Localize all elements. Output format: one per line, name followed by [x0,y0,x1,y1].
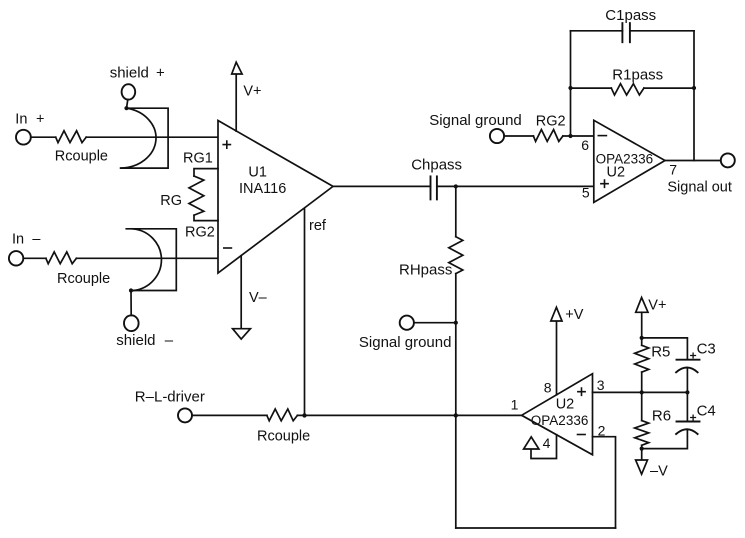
terminal Signal out [721,153,735,167]
capacitor C4 plate [677,421,700,423]
capacitor Chpass plate2 [436,176,438,199]
op-amp U2 top OPA2336 [594,120,665,202]
wire R-L rail left [192,414,267,416]
ref wire [304,208,306,415]
junction dot ref node [302,413,306,417]
wire Rcouple to U1 + input [86,136,218,138]
resistor R6 [635,421,649,446]
V+ arrow divider [636,298,648,313]
svg-text:Signal ground: Signal ground [359,334,452,351]
svg-text:–: – [165,332,174,349]
svg-text:R1pass: R1pass [612,67,663,84]
wire R6 to -V node [641,445,643,460]
capacitor C1pass plate1 [621,23,623,42]
wire highpass node vertical [455,186,457,236]
wire sgtop to RG2 [504,135,533,137]
svg-text:V+: V+ [243,84,261,100]
wire Chpass to U2 pin5 [437,185,594,187]
wire feedback left vertical [570,31,572,136]
junction dot -V node [640,447,644,451]
junction dot signal ground node [454,321,458,325]
svg-text:+: + [156,65,165,82]
wire feedback right vertical [693,31,695,161]
wire V+ to R5 [641,312,643,345]
junction dot Chpass node [454,184,458,188]
wire Rcouple to U1 - input [76,257,218,259]
svg-text:R6: R6 [652,408,671,425]
wire U1 output [333,185,431,187]
junction dot pin6 node [568,134,572,138]
junction dot output node [454,413,458,417]
op-amp U2 bottom OPA2336 [522,374,593,455]
svg-text:Signal out: Signal out [667,179,732,195]
svg-text:shield: shield [110,65,149,82]
svg-text:Rcouple: Rcouple [257,428,310,444]
pin3 wire [593,391,688,393]
op-amp U1 INA116 [218,121,333,274]
svg-text:V+: V+ [648,297,666,313]
pin2 wire and feedback right [593,437,616,528]
terminal In+ [16,130,31,145]
junction dot shield+ [124,106,128,110]
U2 top minus sign [598,135,606,137]
svg-text:U1: U1 [248,164,267,180]
wire shield+ lead [127,100,128,108]
svg-text:INA116: INA116 [239,181,286,197]
U1 plus input sign [223,141,230,148]
wire U2 output [665,160,721,162]
svg-text:R–L-driver: R–L-driver [135,389,205,406]
wire C3 branch [642,338,688,360]
svg-text:+: + [36,112,44,128]
capacitor C1pass plate2 [629,23,631,42]
wire C3 to pin3 node [686,368,688,392]
feedback bottom rail [456,527,616,529]
terminal shield- [124,315,139,331]
svg-text:RG2: RG2 [185,225,215,241]
RG1 stub wire [194,169,218,176]
wire top rail left [571,30,623,32]
svg-text:In: In [15,112,27,128]
shield guard upper arc [121,108,156,168]
svg-text:6: 6 [581,137,589,153]
svg-text:+V: +V [565,307,583,323]
wire signal ground mid [414,322,456,324]
-V arrow [636,460,648,474]
resistor R5 [635,345,649,372]
junction dot pin3 node [640,390,644,394]
svg-text:C3: C3 [697,341,716,358]
svg-text:3: 3 [597,377,605,393]
capacitor C4 curved plate [676,429,698,434]
terminal R-L-driver [178,408,192,422]
wire node down to feedback rail [455,415,457,528]
resistor RG2 (top) [533,130,563,142]
wire RHpass to ground node [455,274,457,323]
wire R5 to pin3 node [641,372,643,392]
svg-text:Chpass: Chpass [411,157,462,174]
pin4 line [531,435,557,459]
svg-text:4: 4 [543,435,551,451]
C4 plus sign [691,415,696,420]
resistor R1pass [611,84,644,95]
wire pin3 node to R6 [641,392,643,420]
svg-text:Signal ground: Signal ground [429,112,522,129]
svg-text:C4: C4 [697,403,716,420]
svg-text:RG: RG [160,193,182,209]
+V arrow pin8 [551,307,562,321]
U1 V+ supply line [235,74,237,131]
terminal Signal ground top [490,129,504,143]
svg-text:RHpass: RHpass [399,262,452,279]
svg-text:RG2: RG2 [536,114,566,130]
wire C4 branch [686,392,688,421]
svg-text:shield: shield [116,332,155,349]
svg-text:RG1: RG1 [183,151,213,167]
terminal In- [9,251,23,265]
svg-text:Rcouple: Rcouple [55,149,108,165]
U2 top plus sign [601,180,608,187]
shield guard upper bracket [121,108,168,168]
wire ground node down [455,323,457,416]
U1 V- arrow [233,329,251,339]
svg-text:OPA2336: OPA2336 [531,413,589,428]
terminal Signal ground mid [400,316,414,330]
shield guard lower bracket [126,229,176,291]
svg-text:–V: –V [650,463,668,479]
capacitor C3 curved plate [676,368,698,373]
resistor RHpass [449,237,463,274]
wire shield- lead [130,291,132,316]
terminal shield+ [122,84,136,99]
junction dot R1pass right [692,86,696,90]
resistor Rcouple (R-L) [267,409,298,421]
svg-text:2: 2 [598,422,606,438]
U1 V+ arrow [232,62,242,74]
U1 minus input sign [224,247,232,249]
resistor RG [189,176,204,215]
wire In- to Rcouple [23,257,46,259]
svg-text:8: 8 [544,380,552,396]
wire R1pass rail right [644,87,694,89]
U2 bottom plus sign [578,388,585,395]
capacitor Chpass plate1 [430,176,432,199]
wire RG2 to pin6 [563,135,594,137]
U1 V- supply line [240,256,242,329]
svg-text:In: In [12,232,24,248]
svg-text:Rcouple: Rcouple [57,271,110,287]
C3 plus sign [691,353,696,358]
junction dot shield- [129,288,133,292]
svg-text:5: 5 [582,185,590,201]
wire C4 to bottom node [642,430,688,449]
shield guard lower arc [133,229,162,291]
wire R1pass rail left [571,87,612,89]
pin4 ground arrow [524,437,539,449]
svg-text:R5: R5 [651,344,670,361]
svg-text:V–: V– [249,290,268,306]
RG2 stub wire [194,215,218,220]
pin8 supply line [556,321,558,395]
wire R-L rail right [297,414,521,416]
wire In+ to Rcouple [31,136,56,138]
svg-text:1: 1 [511,397,519,413]
svg-text:U2: U2 [556,397,575,413]
junction dot C3 C4 node [685,390,689,394]
U2 bottom minus sign [578,434,586,436]
svg-text:7: 7 [669,161,677,177]
capacitor C3 plate [677,359,700,361]
resistor Rcouple (In+) [56,131,86,143]
junction dot R1pass left [568,86,572,90]
resistor Rcouple (In-) [46,252,77,264]
svg-text:U2: U2 [607,164,626,180]
svg-text:ref: ref [309,218,327,234]
svg-text:–: – [32,232,41,248]
wire top rail right [630,30,694,32]
junction dot C3 branch [640,336,644,340]
svg-text:C1pass: C1pass [605,7,656,24]
